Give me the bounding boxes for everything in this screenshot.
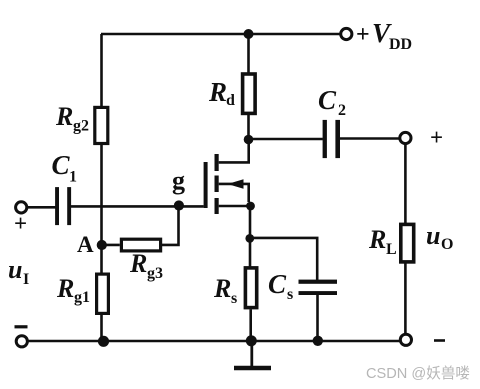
wire drain lead [219,140,249,162]
capacitor C1 [55,187,71,225]
terminal output minus [400,334,411,345]
svg-text:R: R [55,102,73,131]
label plus input [14,211,27,236]
wire C1 to gate [71,205,204,208]
svg-text:O: O [441,236,453,253]
resistor Rd [243,74,256,113]
svg-text:u: u [8,255,22,284]
terminal input minus [16,336,27,347]
label Rs [213,274,237,307]
node A [97,240,107,250]
svg-text:d: d [226,92,235,109]
terminal output plus [400,132,411,143]
label uO [426,221,453,253]
transistor Q1 gate bar [204,162,208,208]
resistor Rg1 [97,274,109,313]
svg-text:C: C [318,85,337,115]
wire left rail upper [100,34,103,107]
resistor Rg3 [121,239,160,251]
capacitor C2 [323,120,340,158]
watermark CSDN [366,365,470,382]
svg-text:L: L [386,241,397,258]
svg-text:C: C [52,150,71,180]
wire bottom rail [27,340,400,343]
wire source lead [219,205,248,208]
ground [234,345,271,368]
svg-text:R: R [56,274,74,303]
terminal +VDD [341,28,352,39]
label Rd [208,77,235,109]
svg-text:g1: g1 [74,289,90,306]
node source [246,202,255,211]
svg-text:R: R [368,225,386,254]
wire C2 to output terminal [340,137,400,140]
label C2 [318,85,346,119]
label minus input [15,325,28,328]
svg-text:R: R [208,77,227,107]
svg-text:DD: DD [389,36,412,53]
svg-text:I: I [23,271,29,288]
label Rg3 [129,249,163,282]
node source-Cs junction [245,234,254,243]
svg-text:g3: g3 [147,265,163,282]
svg-text:R: R [129,249,147,278]
node top rail / Rd junction [244,29,254,39]
wire drain to C2 [249,138,323,141]
wire g to Rg3 [162,206,179,245]
wire A to Rg3 [102,244,120,247]
svg-text:s: s [287,286,293,303]
svg-text:CSDN @妖兽喽: CSDN @妖兽喽 [366,365,470,382]
svg-text:2: 2 [338,102,346,119]
svg-text:1: 1 [69,169,77,186]
terminal input plus [16,202,27,213]
label Rg1 [56,274,90,306]
resistor Rs [245,268,256,308]
wire body lead with arrow [219,179,249,202]
wire left rail lower [100,315,103,341]
wire source to Rs [249,206,252,267]
wire VDD rail to Rd [247,34,250,74]
svg-text:u: u [426,221,440,250]
label g [172,166,185,195]
svg-text:g: g [172,166,185,195]
label +VDD [356,18,412,53]
wire Rd to drain node [247,115,250,139]
node g [174,200,184,210]
svg-text:s: s [231,290,237,307]
transistor Q1 channel bars [215,154,219,214]
label minus output [434,339,445,342]
wire junction to Cs [250,238,317,280]
wire input to C1 [27,206,56,209]
wire Rs to bottom rail [249,309,252,341]
svg-text:+: + [14,211,27,236]
node drain [244,135,254,145]
wire left rail middle [100,145,103,274]
node bottom Cs [313,336,323,346]
wire RL to output minus terminal [404,263,407,335]
svg-text:C: C [268,269,287,299]
capacitor Cs [299,280,338,295]
wire Cs to bottom rail [316,295,319,342]
node bottom Rs [246,335,257,346]
resistor Rg2 [95,107,108,143]
wire right rail [404,143,407,225]
svg-text:+: + [430,125,443,150]
resistor RL [401,224,414,262]
node bottom Rg1 [98,336,109,347]
label Cs [268,269,293,303]
label C1 [52,150,78,186]
label plus output [430,125,443,150]
svg-text:A: A [77,232,94,257]
svg-text:+: + [356,22,370,48]
label RL [368,225,397,258]
wire top rail [101,33,340,36]
label Rg2 [55,102,89,135]
label u1 [8,255,29,288]
svg-text:g2: g2 [73,118,89,135]
svg-text:R: R [213,274,231,303]
label A [77,232,94,257]
